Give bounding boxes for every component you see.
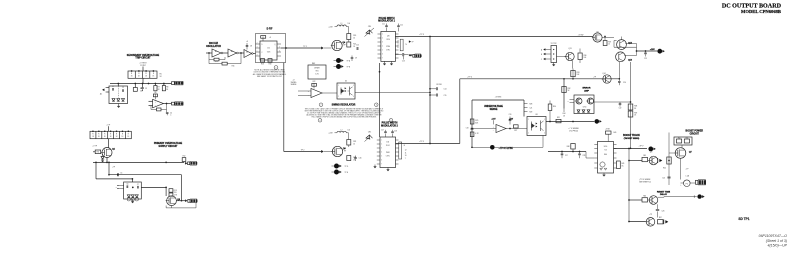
svg-text:B: B	[541, 54, 542, 56]
svg-text:C13: C13	[402, 61, 405, 63]
svg-text:1K: 1K	[110, 136, 112, 138]
wire Q3 output	[176, 200, 185, 202]
resistor R18	[261, 59, 265, 66]
svg-text:1K: 1K	[116, 136, 118, 138]
ref circle 5	[389, 119, 393, 123]
gate arrow modulator 2	[321, 150, 323, 152]
svg-text:C24: C24	[623, 82, 626, 84]
label +V TEST POINT	[139, 63, 147, 67]
wire y178.9	[96, 178, 133, 182]
resistor R23	[347, 140, 356, 148]
svg-text:7: 7	[405, 158, 406, 160]
svg-text:C11: C11	[382, 24, 385, 26]
note line 1	[305, 107, 384, 110]
svg-text:SENSE: SENSE	[291, 84, 298, 86]
svg-text:C25: C25	[662, 177, 665, 179]
svg-text:TP B: TP B	[347, 66, 351, 68]
wire opto output to bus	[355, 92, 431, 94]
wire riser x459.8	[459, 79, 461, 144]
note +7V sense	[568, 128, 579, 133]
connector J4	[185, 199, 197, 203]
transistor Q14 on rail	[593, 73, 611, 83]
gate arrow modulator 1	[321, 47, 323, 49]
svg-text:OSCILLATOR: OSCILLATOR	[206, 45, 221, 48]
terminal TP-J	[648, 147, 655, 152]
ground below CR1	[117, 104, 120, 108]
label BOOST TRACK	[623, 134, 640, 140]
svg-text:U10: U10	[604, 146, 607, 148]
ref circle 2	[319, 103, 323, 107]
svg-text:BOOST TRACK: BOOST TRACK	[623, 134, 640, 137]
svg-text:R48: R48	[567, 146, 570, 148]
reference block K1	[308, 63, 326, 79]
capacitor C3	[141, 84, 147, 92]
capacitor C27	[561, 152, 568, 159]
bridge rectifier CR1	[109, 84, 128, 104]
svg-text:R11: R11	[97, 152, 100, 154]
wire loop bottom	[430, 143, 460, 145]
svg-text:L2: L2	[341, 129, 343, 131]
svg-text:ZENER: ZENER	[314, 68, 320, 70]
optocoupler U8	[527, 114, 546, 136]
svg-text:4: 4	[320, 120, 321, 122]
transistor Q5	[592, 31, 602, 42]
resistor R10 feedback loop	[151, 104, 167, 111]
note line 5	[312, 116, 377, 119]
ground J7	[552, 63, 555, 67]
svg-text:C8: C8	[250, 46, 252, 48]
pin labels U3	[397, 40, 399, 49]
ref circle 1	[274, 66, 278, 70]
resistor R14	[169, 193, 178, 197]
wire drop x109	[109, 162, 115, 174]
regulator U10	[594, 142, 616, 174]
test point TP-D	[332, 164, 349, 169]
svg-text:U8: U8	[535, 114, 537, 116]
inductor L2	[335, 129, 351, 139]
svg-text:R19: R19	[269, 64, 272, 66]
svg-text:R31: R31	[557, 117, 560, 119]
resistor R20	[347, 34, 356, 43]
inverter A1	[212, 49, 223, 57]
connector J1	[172, 81, 184, 85]
label +16V b	[509, 118, 514, 120]
svg-text:R42: R42	[678, 137, 681, 139]
wire U4 input	[298, 91, 311, 96]
svg-text:TP 1: TP 1	[303, 46, 307, 48]
svg-text:1K: 1K	[98, 136, 100, 138]
wire into U10	[586, 157, 594, 159]
svg-text:C18: C18	[394, 131, 397, 133]
svg-text:PRIMARY OVERVOLTAGE: PRIMARY OVERVOLTAGE	[154, 142, 183, 145]
wire TP-F	[471, 136, 543, 149]
resistor R47	[658, 217, 664, 224]
svg-text:R32: R32	[568, 88, 571, 90]
label PULSE WIDTH MODULATOR 2	[381, 123, 398, 128]
note: drawing number block	[759, 234, 788, 248]
svg-text:7474: 7474	[267, 52, 271, 54]
svg-text:R9: R9	[154, 92, 156, 94]
svg-text:RESET TIME: RESET TIME	[657, 191, 671, 193]
svg-text:10: 10	[405, 155, 407, 157]
ground U10	[603, 173, 606, 177]
svg-text:C3: C3	[145, 88, 147, 90]
label UNDERVOLTAGE SENSE	[484, 105, 503, 111]
svg-text:12: 12	[405, 150, 407, 152]
capacitor C10	[356, 45, 359, 50]
resistor R45	[642, 155, 648, 162]
wire U2 output	[163, 103, 171, 105]
transistor Q4	[324, 40, 346, 50]
svg-text:SEE SHEET 3 FOR PARTS LIST.: SEE SHEET 3 FOR PARTS LIST.	[257, 75, 283, 78]
wire U4 to opto	[322, 92, 337, 94]
capacitor C22	[619, 102, 622, 110]
svg-text:CTRL: CTRL	[386, 50, 390, 52]
diode CR2	[101, 154, 104, 159]
svg-text:C10: C10	[356, 45, 359, 47]
ref circle 3	[375, 103, 379, 107]
transistor Q9	[648, 196, 658, 205]
wire Q12 emitter down	[618, 62, 620, 79]
svg-text:100: 100	[348, 129, 351, 131]
resistor R40 top	[605, 129, 616, 142]
label SECONDARY OVERVOLTAGE TRIP CIRCUIT	[127, 54, 160, 60]
svg-text:SENSE: SENSE	[490, 109, 498, 111]
svg-text:220: 220	[174, 192, 177, 194]
svg-text:C21: C21	[530, 107, 533, 109]
svg-text:10: 10	[353, 143, 355, 145]
branch 2 wire	[629, 199, 642, 201]
label +16V a	[491, 118, 496, 124]
svg-text:R8: R8	[166, 87, 168, 89]
svg-text:1K: 1K	[122, 136, 124, 138]
resistor R19	[268, 59, 272, 66]
svg-text:SD TP1: SD TP1	[738, 217, 749, 221]
svg-text:−TP 6 FLYBK: −TP 6 FLYBK	[499, 148, 514, 150]
svg-text:TO TR2: TO TR2	[551, 43, 557, 45]
transistor Q10	[645, 214, 655, 226]
terminal TP-G	[595, 119, 602, 124]
svg-text:R7: R7	[158, 87, 160, 89]
svg-text:REF: REF	[312, 63, 315, 65]
input marks T1 secondary	[116, 186, 124, 189]
resistor network RN2	[90, 130, 131, 138]
test point TP-E	[332, 170, 349, 175]
fuse F1	[680, 180, 690, 187]
ground U6 pin b	[387, 168, 390, 172]
label ERROR AMP	[583, 88, 591, 93]
title: DC OUTPUT BOARD	[722, 4, 782, 10]
svg-text:R23: R23	[353, 141, 356, 143]
svg-text:D: D	[262, 44, 263, 46]
svg-text:3524: 3524	[386, 39, 390, 41]
test point TP-A	[334, 58, 351, 63]
wire R30 down	[549, 111, 551, 123]
branch 3 wire	[628, 221, 645, 223]
wire bus x629 down	[628, 149, 630, 222]
svg-text:3: 3	[376, 105, 377, 107]
svg-text:R27: R27	[514, 130, 517, 132]
svg-text:(*MODE* SENS): (*MODE* SENS)	[624, 138, 640, 140]
svg-text:(TO PIN 4): (TO PIN 4)	[569, 130, 578, 133]
svg-text:100: 100	[584, 57, 587, 59]
svg-text:C4: C4	[170, 112, 172, 114]
connector J2	[172, 102, 184, 106]
vertical x564	[562, 79, 571, 109]
svg-text:C22: C22	[619, 108, 622, 110]
svg-text:1K: 1K	[127, 136, 129, 138]
error amp block U9	[574, 95, 594, 114]
svg-text:+TP 3: +TP 3	[419, 34, 424, 36]
ground U6 pin a	[374, 165, 377, 169]
resistor R9 feedback	[153, 92, 157, 99]
svg-text:Q11: Q11	[568, 48, 571, 50]
svg-text:723: 723	[604, 150, 607, 152]
capacitor C25	[662, 177, 670, 179]
svg-text:VR1: VR1	[315, 71, 318, 73]
wire F1 to J8	[681, 182, 696, 184]
svg-text:C26: C26	[662, 210, 665, 212]
resistor R48	[567, 143, 575, 152]
connector J8	[696, 180, 707, 185]
svg-text:2: 2	[321, 105, 322, 107]
svg-text:100: 100	[348, 23, 351, 25]
svg-text:CR4: CR4	[368, 26, 371, 28]
svg-text:C12: C12	[400, 25, 403, 27]
svg-text:CR10: CR10	[583, 107, 587, 109]
svg-text:+TP 4: +TP 4	[467, 77, 472, 79]
svg-text:C17: C17	[381, 130, 384, 132]
svg-text:R20: R20	[353, 35, 356, 37]
svg-text:15: 15	[397, 43, 399, 45]
svg-text:C7: C7	[137, 184, 139, 186]
svg-text:SWING REGULATOR: SWING REGULATOR	[332, 104, 356, 107]
resistor R6	[133, 84, 143, 93]
svg-text:100 KHZ: 100 KHZ	[209, 43, 219, 45]
svg-text:R34: R34	[563, 113, 566, 115]
wire drop x96	[95, 162, 97, 179]
svg-text:MODEL CPN6068B: MODEL CPN6068B	[741, 9, 781, 14]
transistor Q7	[669, 148, 693, 159]
comparator U7	[471, 125, 506, 133]
svg-text:R41: R41	[622, 163, 625, 165]
svg-text:REF: REF	[409, 55, 412, 57]
label Q12	[628, 42, 633, 44]
wire Q3 feedback loop	[166, 203, 196, 208]
svg-text:MODULATOR 2: MODULATOR 2	[381, 124, 398, 127]
capacitor C26	[656, 204, 665, 217]
label +V OUT	[650, 49, 655, 51]
pwm controller U3	[378, 31, 399, 61]
svg-text:1K: 1K	[131, 76, 133, 78]
label D F/F	[267, 28, 273, 30]
svg-text:BOOST POWER: BOOST POWER	[686, 130, 704, 132]
svg-text:R12: R12	[183, 156, 186, 158]
svg-text:SEE SHEET 2): SEE SHEET 2)	[639, 181, 651, 183]
svg-text:R25: R25	[475, 120, 478, 122]
svg-text:R16: R16	[232, 65, 235, 67]
ground arrow below CR2	[101, 159, 104, 162]
svg-text:(Sheet 1 of 3): (Sheet 1 of 3)	[766, 239, 787, 243]
inverter A3	[244, 50, 253, 58]
wire rail y100 undervolt right	[471, 99, 473, 101]
connector strip J7	[541, 43, 557, 62]
resistor R31	[556, 117, 561, 123]
wire U1 Q output to modulator 1	[281, 46, 321, 49]
capacitor C9	[351, 56, 357, 62]
svg-text:C19: C19	[466, 127, 469, 129]
svg-text:1K: 1K	[104, 136, 106, 138]
resistor R38	[628, 104, 637, 110]
wire branch2 right	[658, 195, 697, 197]
svg-text:CTRL: CTRL	[386, 156, 390, 158]
svg-text:D F/F: D F/F	[267, 28, 273, 30]
wire drop x181.5	[181, 175, 183, 201]
svg-text:1K: 1K	[152, 76, 154, 78]
resistor R39	[628, 111, 637, 117]
capacitor C16	[354, 156, 361, 162]
capacitor C8	[246, 41, 252, 50]
svg-text:R22: R22	[313, 81, 316, 83]
resistor R22	[312, 81, 317, 88]
svg-text:1K: 1K	[92, 136, 94, 138]
branch 1 wire	[629, 160, 642, 162]
svg-text:.1: .1	[170, 115, 171, 117]
op-amp U2	[149, 99, 164, 108]
wire CR3 to Q3	[141, 187, 167, 196]
ground below CR3	[131, 199, 134, 203]
svg-text:IRF: IRF	[343, 45, 345, 47]
resistor R25	[470, 119, 479, 124]
svg-text:CIRCUIT: CIRCUIT	[690, 133, 700, 135]
wire compensation rail	[548, 151, 586, 158]
capacitor C11	[382, 24, 388, 32]
svg-text:C15: C15	[444, 95, 447, 97]
label 100 KHZ OSCILLATOR	[206, 43, 221, 48]
resistor R17 pullup	[261, 36, 272, 41]
resistor R8	[162, 84, 169, 91]
svg-text:R36: R36	[584, 55, 587, 57]
note to sense	[639, 179, 651, 184]
resistor R26	[470, 132, 479, 137]
wire horizontal rail lower-left	[93, 162, 184, 164]
svg-text:R33: R33	[577, 72, 580, 74]
resistor R37	[603, 36, 611, 46]
svg-text:SUPPLY CIRCUIT: SUPPLY CIRCUIT	[159, 146, 178, 148]
inductor L1	[335, 23, 351, 34]
svg-text:SECONDARY OVERVOLTAGE: SECONDARY OVERVOLTAGE	[127, 54, 160, 57]
svg-text:C14: C14	[444, 89, 447, 91]
wire drop x379.5	[379, 63, 381, 137]
svg-text:IRF: IRF	[344, 151, 346, 153]
resistor R35 drop	[572, 61, 574, 69]
wire from +V label to resistor bank RN1	[142, 67, 144, 72]
svg-text:R13: R13	[174, 190, 177, 192]
svg-text:3524: 3524	[386, 145, 390, 147]
test arrow TP-C	[409, 41, 414, 44]
resistor R41	[617, 161, 625, 169]
resistor R12	[182, 156, 186, 163]
svg-text:06P1109TX47—O: 06P1109TX47—O	[759, 234, 788, 238]
svg-text:R15: R15	[215, 61, 218, 63]
label SD TP1	[738, 217, 749, 221]
svg-text:R45: R45	[643, 155, 646, 157]
svg-text:R47: R47	[659, 217, 662, 219]
svg-text:TP 2: TP 2	[301, 150, 305, 152]
wire +V to RN2	[108, 126, 110, 131]
bracket N2	[399, 142, 406, 159]
wire opto2 output	[546, 121, 594, 123]
wire U3 ref output	[395, 54, 402, 56]
resistor pack RN3	[674, 137, 692, 145]
wire Q7 down	[681, 158, 690, 179]
svg-text:C6: C6	[126, 183, 128, 185]
pwm controller U6	[377, 137, 399, 168]
svg-text:+TP: +TP	[649, 214, 652, 216]
capacitor C14	[429, 87, 446, 90]
capacitor C4	[166, 109, 172, 116]
capacitor C28	[578, 151, 585, 159]
svg-text:C5: C5	[120, 173, 122, 175]
resistor R21	[347, 42, 356, 48]
ground U3 pin b	[390, 61, 393, 65]
capacitor C24	[618, 79, 626, 85]
ground U3 pin a	[383, 61, 386, 65]
svg-text:+TP: +TP	[112, 166, 115, 168]
wire rail y78.8	[460, 77, 620, 80]
terminal TP-H	[657, 49, 664, 54]
svg-text:10: 10	[608, 44, 610, 46]
wire oscillator chain	[206, 52, 256, 54]
svg-text:AMP: AMP	[584, 89, 589, 92]
capacitor C23	[644, 51, 647, 60]
input jack J5	[100, 88, 109, 96]
svg-text:1K: 1K	[145, 76, 147, 78]
svg-text:L1: L1	[341, 23, 343, 25]
svg-text:R18: R18	[261, 64, 264, 66]
svg-text:10: 10	[353, 37, 355, 39]
note line 3	[307, 111, 381, 114]
svg-text:C28: C28	[583, 155, 586, 157]
svg-text:12: 12	[397, 45, 399, 47]
wire bus x430	[429, 37, 431, 144]
svg-text:C: C	[262, 52, 263, 54]
capacitor C20	[509, 114, 512, 124]
svg-text:+TP V: +TP V	[638, 145, 644, 147]
svg-text:C9: C9	[355, 58, 357, 60]
svg-text:TP E: TP E	[345, 172, 349, 174]
capacitor C15	[429, 84, 446, 97]
capacitor C5	[117, 173, 122, 177]
svg-text:Q14: Q14	[602, 73, 605, 75]
svg-text:R38: R38	[634, 106, 637, 108]
svg-text:UNDERVOLTAGE: UNDERVOLTAGE	[484, 105, 503, 108]
label +V supply 2	[328, 133, 333, 135]
wire RN2 to Q1	[108, 139, 110, 148]
svg-text:+28V: +28V	[650, 49, 655, 51]
svg-text:2K: 2K	[563, 115, 565, 117]
resistor R11 gate	[93, 150, 101, 154]
resistor R44	[663, 157, 671, 170]
svg-text:R30: R30	[553, 106, 556, 108]
svg-text:ERROR: ERROR	[583, 88, 591, 90]
svg-text:11: 11	[397, 47, 399, 49]
bridge rectifier CR3	[124, 182, 142, 201]
label +V primary	[106, 125, 111, 127]
resistor R16 feedback	[209, 53, 241, 67]
label RESET TIME DELAY	[657, 191, 671, 196]
svg-text:+TP 5: +TP 5	[419, 141, 424, 143]
